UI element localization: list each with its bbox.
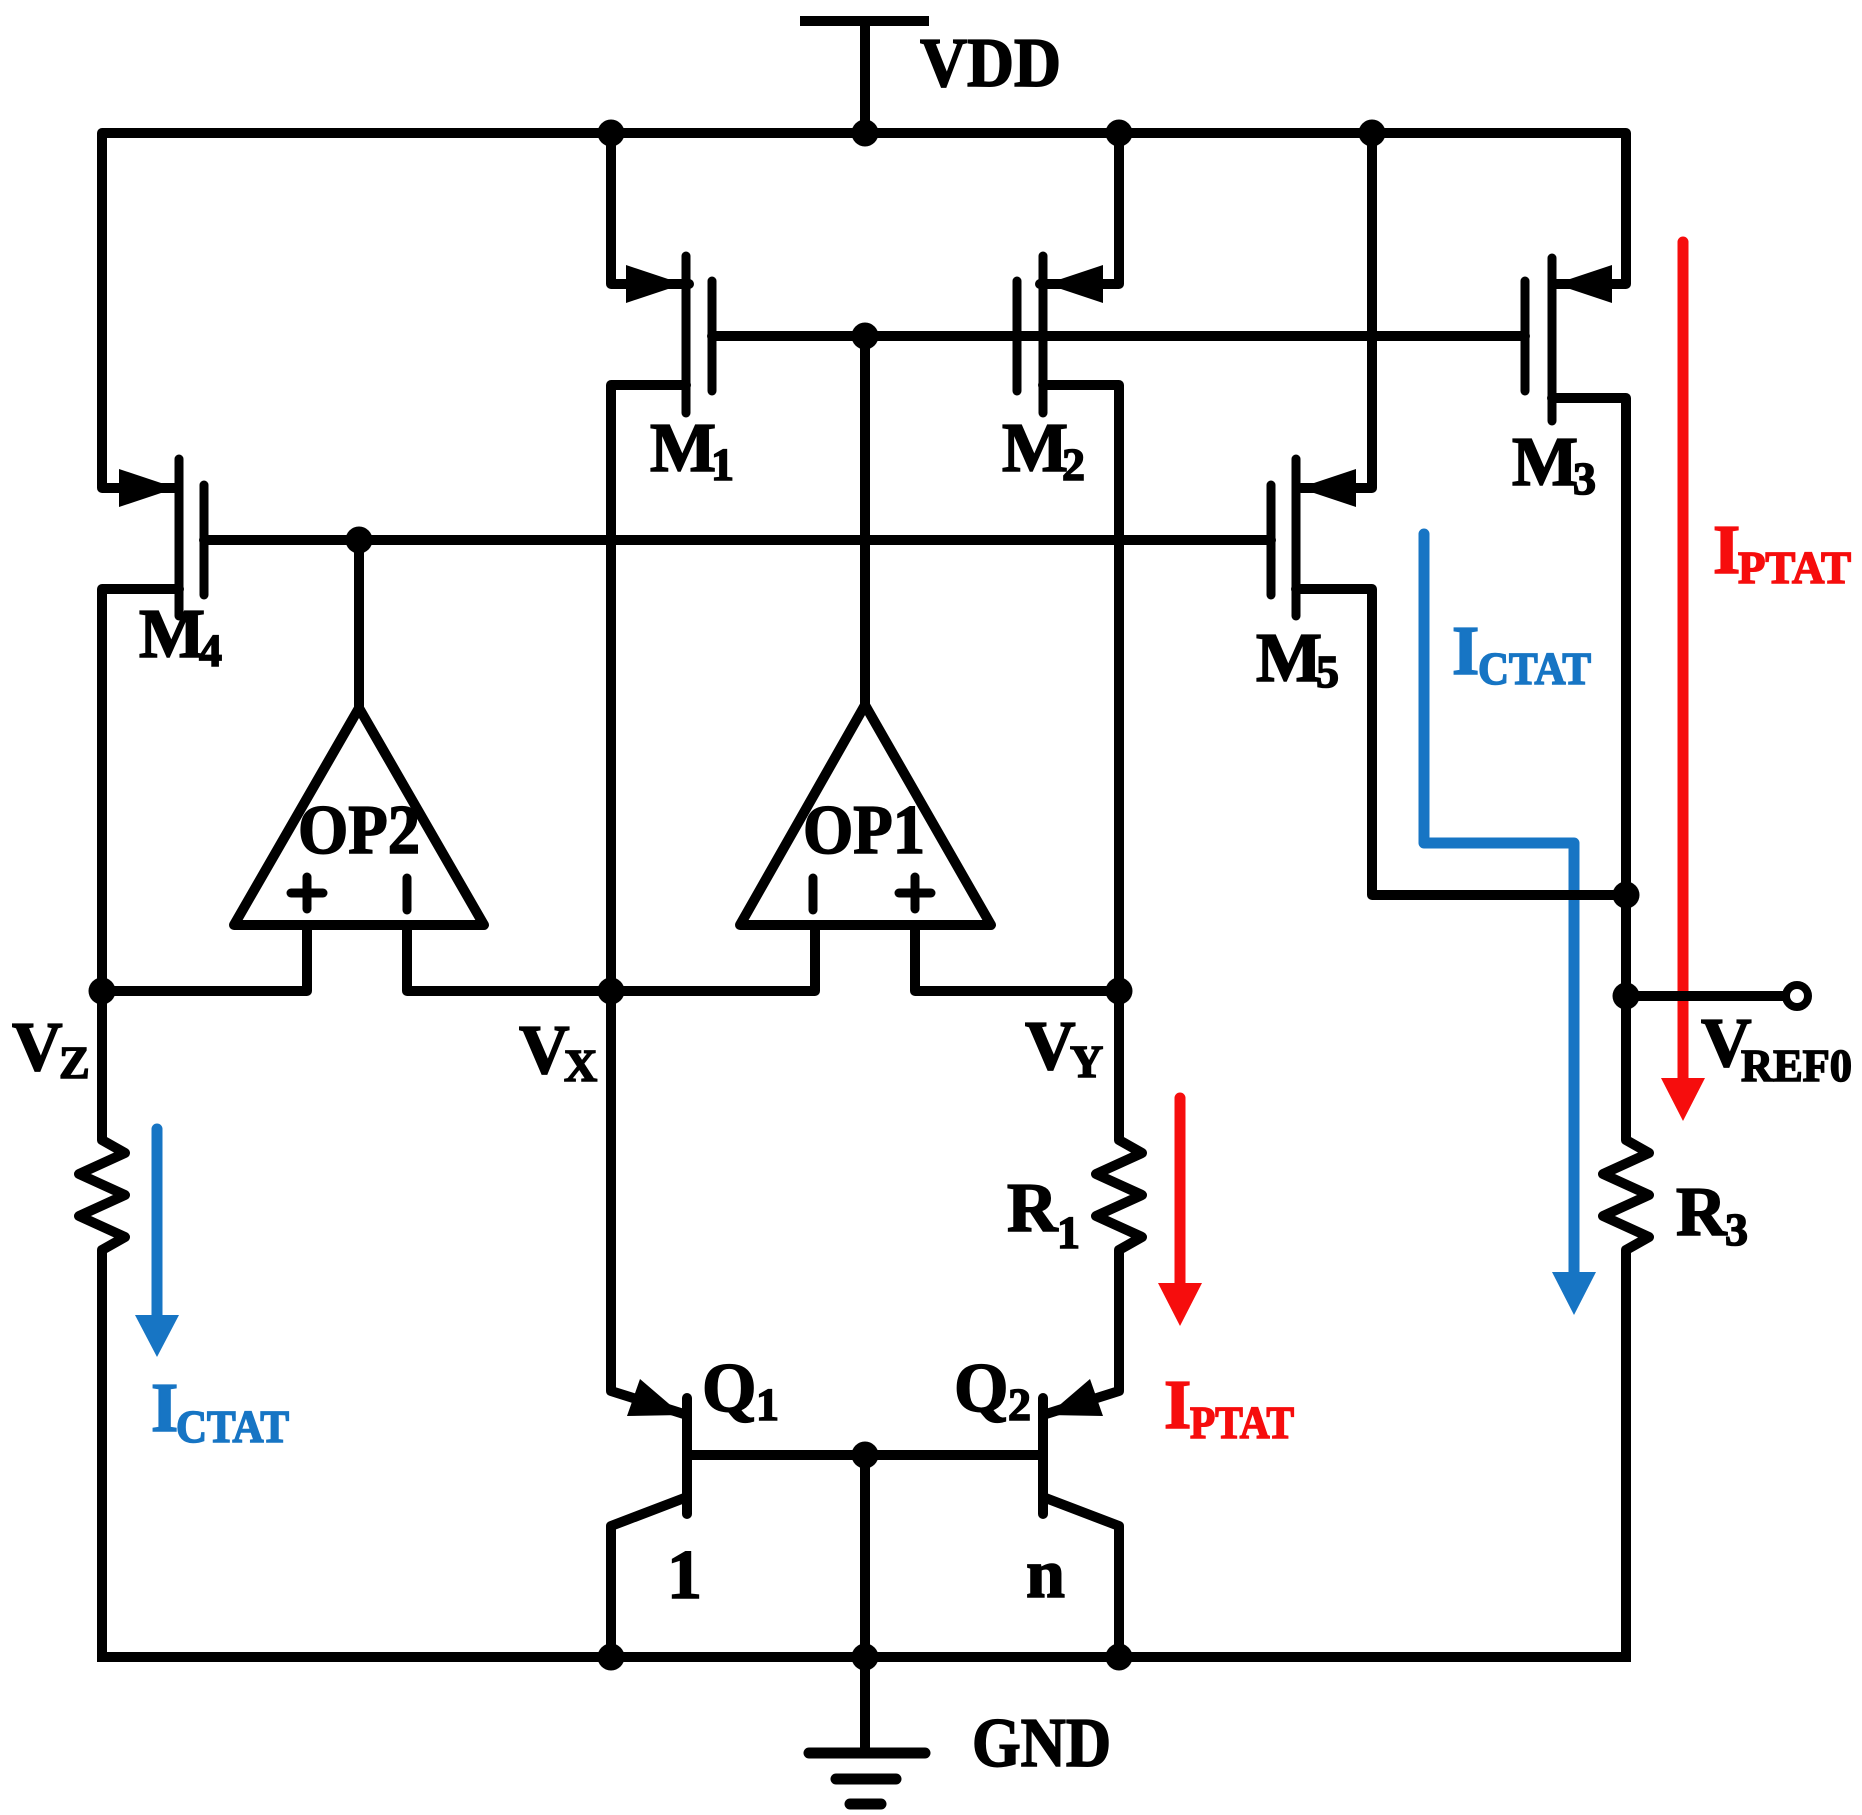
svg-text:V: V: [519, 1012, 570, 1089]
svg-text:1: 1: [1057, 1207, 1080, 1258]
svg-text:2: 2: [1008, 1379, 1031, 1430]
svg-text:V: V: [1025, 1008, 1076, 1085]
svg-text:Z: Z: [59, 1037, 90, 1088]
svg-text:3: 3: [1573, 453, 1596, 504]
svg-text:GND: GND: [972, 1705, 1111, 1782]
svg-text:R: R: [1007, 1170, 1059, 1247]
svg-text:CTAT: CTAT: [176, 1401, 289, 1452]
svg-text:I: I: [1713, 512, 1740, 589]
svg-text:M: M: [1256, 620, 1322, 697]
svg-text:3: 3: [1725, 1204, 1748, 1255]
svg-text:PTAT: PTAT: [1738, 542, 1851, 593]
svg-text:M: M: [139, 596, 205, 673]
svg-text:1: 1: [667, 1537, 702, 1614]
svg-text:Q: Q: [954, 1350, 1008, 1427]
svg-text:CTAT: CTAT: [1478, 643, 1591, 694]
svg-text:PTAT: PTAT: [1190, 1397, 1294, 1448]
svg-text:OP1: OP1: [803, 792, 925, 869]
svg-text:4: 4: [199, 625, 222, 676]
svg-text:Q: Q: [702, 1350, 756, 1427]
svg-text:I: I: [1164, 1367, 1191, 1444]
svg-text:5: 5: [1316, 646, 1339, 697]
svg-text:VDD: VDD: [920, 25, 1061, 102]
svg-text:Y: Y: [1070, 1036, 1103, 1087]
svg-text:M: M: [650, 410, 716, 487]
svg-text:REF0: REF0: [1741, 1040, 1852, 1091]
svg-text:M: M: [1512, 424, 1578, 501]
svg-text:n: n: [1026, 1536, 1065, 1613]
svg-text:2: 2: [1062, 439, 1085, 490]
svg-text:I: I: [1452, 613, 1479, 690]
svg-text:R: R: [1676, 1174, 1728, 1251]
svg-text:I: I: [151, 1370, 178, 1447]
svg-text:OP2: OP2: [298, 792, 420, 869]
svg-text:M: M: [1002, 410, 1068, 487]
svg-text:V: V: [12, 1009, 63, 1086]
svg-text:1: 1: [711, 439, 734, 490]
svg-text:X: X: [564, 1040, 597, 1091]
svg-text:1: 1: [756, 1379, 779, 1430]
